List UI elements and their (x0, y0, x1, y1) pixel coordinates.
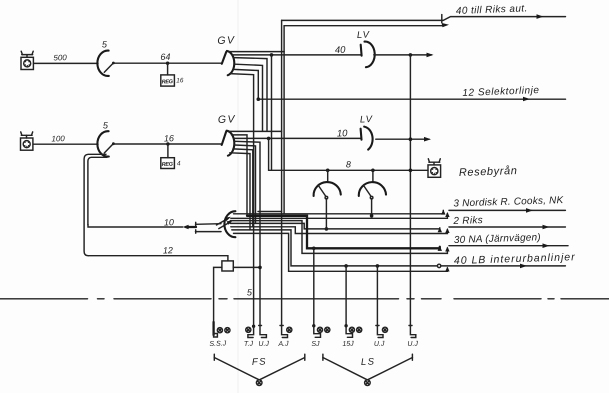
GV2 output wire 6 (233, 149, 253, 227)
telephone T1 (500 subscribers) (21, 51, 33, 69)
GV2 output wire 4 (to UJ) (235, 141, 260, 325)
svg-text:FS: FS (252, 356, 268, 368)
wire LV10 out (376, 138, 429, 140)
line selector LV40 (361, 42, 375, 68)
selector S2 arc (5) (97, 131, 108, 156)
junction LV10 branch (267, 137, 271, 141)
svg-text:15J: 15J (342, 341, 354, 348)
junction LV40 / vertical (409, 53, 413, 57)
register box REG 4 (161, 158, 181, 169)
GV2 output wire 1 (228, 130, 282, 132)
wire to REG2 (167, 144, 169, 158)
svg-text:500: 500 (53, 53, 67, 62)
GV1 output wire 2 (to LV40) (232, 54, 361, 56)
arrowhead LV40 (427, 53, 434, 58)
line selector LV10 (361, 127, 373, 150)
bundle line B3 (Nordisk lower) (231, 214, 448, 219)
wire LV40 out (374, 54, 432, 56)
arrowhead LV10 (424, 137, 431, 142)
wire box to SSJ (214, 267, 222, 325)
scan seam (237, 0, 239, 393)
brace FS (214, 354, 304, 385)
junction 15J branch (344, 264, 348, 268)
svg-text:U.J: U.J (407, 341, 418, 348)
junction box/UJ vertical (258, 266, 262, 270)
riks line (449, 226, 565, 228)
vertical 8-line branch (268, 138, 270, 170)
vertical riks inner (283, 26, 285, 214)
svg-text:8: 8 (346, 159, 351, 169)
svg-text:12: 12 (163, 245, 173, 255)
junction REG2 tap (166, 142, 169, 145)
wire S2 to GV2 (113, 143, 221, 145)
terminal UJ4 (409, 326, 416, 338)
long vertical to UJ right (409, 55, 411, 326)
svg-text:2 Riks: 2 Riks (452, 215, 483, 227)
svg-text:GV: GV (218, 113, 237, 126)
terminal SJ (312, 324, 330, 337)
wire box to UJ vertical (233, 266, 260, 268)
svg-text:LS: LS (361, 356, 376, 368)
arrowhead selektorlinje (523, 97, 530, 102)
bundle line B8 (LB lower) (234, 233, 448, 271)
cord wiper 2 (219, 220, 233, 228)
GV2 output wire 3 (to LV10) (234, 137, 362, 139)
svg-text:REG: REG (162, 79, 174, 85)
svg-text:SJ: SJ (311, 341, 320, 348)
bundle line B5 (Riks lower) (231, 227, 448, 234)
telephone T2 (100 subscribers) (21, 132, 33, 150)
selector S1 arc (5) (97, 51, 108, 76)
junction dome1/bundle (325, 227, 329, 231)
wire 8 line (269, 169, 428, 171)
terminal UJ3 (376, 326, 388, 338)
brace LS (323, 354, 413, 385)
svg-text:U.J: U.J (258, 341, 269, 348)
junction dome2/thick line (370, 214, 374, 218)
bundle line B6 (NA lower) (230, 221, 447, 254)
group selector GV2 (222, 131, 235, 156)
wiper S2 (104, 142, 115, 153)
bundle line B4 (Riks upper) (230, 223, 439, 229)
wire dome2 down (371, 199, 373, 216)
cord wiper 1 (217, 217, 231, 225)
svg-text:U.J: U.J (374, 341, 385, 348)
svg-text:REG: REG (162, 162, 174, 168)
svg-text:40: 40 (335, 45, 347, 56)
telephone T3 Resebyran (428, 159, 441, 177)
GV1 output wire 1 (229, 51, 285, 53)
terminal UJ (259, 326, 267, 338)
wire to REG1 (167, 63, 169, 75)
S2 lower contact wires (84, 154, 106, 255)
terminal TJ (246, 325, 256, 338)
GV1 output wire 5 (to selektorlinje) (233, 69, 258, 99)
svg-text:LV: LV (357, 30, 371, 41)
wire 10 from S2 (88, 225, 183, 227)
terminal AJ (280, 326, 292, 338)
svg-text:64: 64 (160, 52, 170, 62)
svg-text:16: 16 (164, 133, 174, 143)
junction UJ3 branch (376, 264, 380, 268)
svg-text:A.J: A.J (277, 341, 289, 348)
wire phone2 to selector S2 (33, 143, 98, 145)
svg-text:100: 100 (51, 134, 65, 143)
junction LV10 / vertical (409, 137, 413, 141)
svg-text:16: 16 (176, 77, 184, 84)
svg-text:4: 4 (177, 160, 181, 167)
GV1 output wire 3 (234, 58, 267, 132)
riks trunk inner line (284, 23, 449, 27)
bundle line B2 thick (NA upper) (247, 216, 440, 249)
bundle line B1 (Nordisk upper) (234, 210, 444, 213)
wire dome1 down (325, 199, 327, 229)
dome selector D1 (314, 170, 341, 199)
vertical riks outer to AJ (281, 20, 283, 325)
GV2 output wire 5 (235, 145, 256, 223)
wire SJ drop (313, 248, 315, 325)
junction dome1 (326, 169, 330, 173)
terminal 15J (344, 324, 361, 337)
svg-text:T.J: T.J (244, 341, 254, 348)
svg-text:S.S.J: S.S.J (209, 340, 226, 348)
junction SJ branch (312, 247, 316, 251)
cord jack (196, 222, 222, 233)
arrow cord10 (183, 225, 196, 229)
bundle line B7 (LB upper / line) (232, 230, 437, 266)
svg-text:GV: GV (217, 34, 236, 47)
wire phone1 to selector S1 (34, 62, 98, 64)
long dashed boundary line (0, 298, 609, 300)
GV2 output wire 2 (232, 135, 248, 216)
junction dome2 (371, 169, 375, 173)
svg-text:Resebyrån: Resebyrån (459, 165, 518, 179)
relay box (222, 261, 233, 271)
NA line (449, 245, 568, 247)
junction REG1 tap (166, 62, 169, 65)
svg-text:LV: LV (360, 114, 374, 125)
wire 12 selektorlinje (258, 98, 565, 100)
bus under GV verticals (258, 211, 282, 213)
svg-text:10: 10 (164, 217, 174, 227)
final selector FS arc (224, 211, 235, 237)
wire S1 to GV1 (113, 62, 221, 64)
GV2 output wire 7 (230, 153, 250, 230)
wire 15J drop (345, 266, 347, 326)
svg-text:10: 10 (337, 128, 349, 139)
junction 8/vertical (409, 169, 413, 173)
junction on wire2 (270, 53, 274, 57)
vertical from wire2 junction (271, 55, 273, 170)
dome selector D2 (359, 170, 386, 199)
wire UJ3 drop (376, 266, 378, 326)
wire 12 to relay box (88, 256, 228, 261)
group selector GV1 (222, 51, 234, 75)
riks trunk outer line (282, 14, 566, 22)
nordisk line (449, 209, 565, 211)
GV1 output wire 6 (to TJ) (230, 74, 254, 326)
selektorlinje junction (257, 97, 261, 101)
wiper S1 (104, 62, 115, 73)
terminal SSJ (214, 322, 230, 337)
GV1 output wire 4 (235, 64, 263, 131)
register box REG 16 (161, 75, 184, 86)
